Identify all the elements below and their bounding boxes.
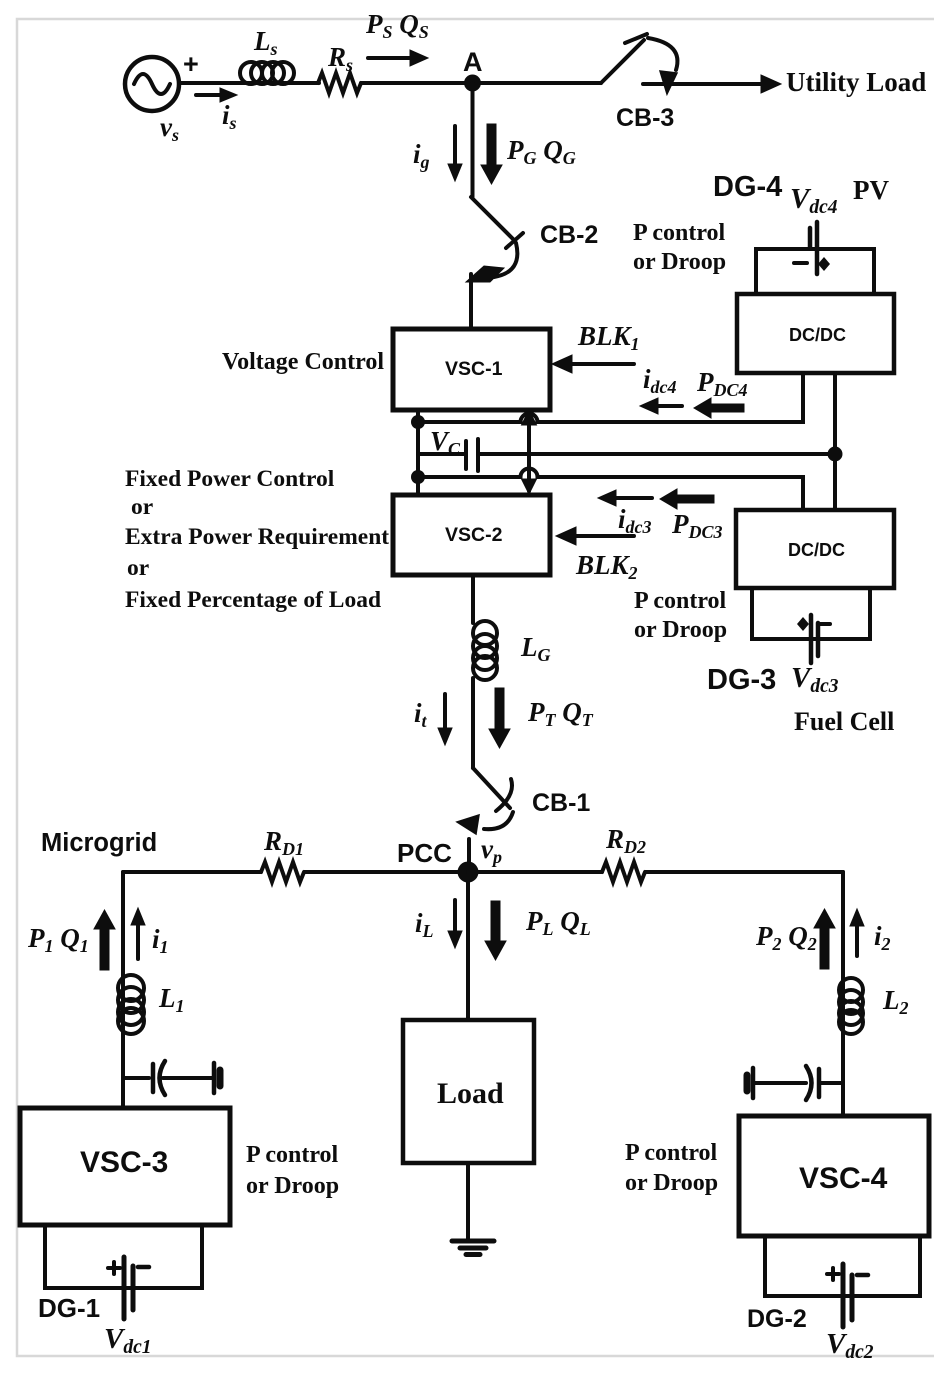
wire dc middle rail right xyxy=(479,452,835,456)
thick arrow PT QT xyxy=(489,688,510,748)
wire CB-1 to PCC xyxy=(467,839,471,872)
battery DG-3 dash xyxy=(819,622,830,626)
svg-text:Vdc2: Vdc2 xyxy=(826,1328,874,1363)
battery loop DG-4 xyxy=(756,249,874,294)
svg-text:CB-3: CB-3 xyxy=(616,104,674,132)
resistor Rs xyxy=(318,73,361,93)
arrow PDC4 thick xyxy=(694,398,744,418)
battery DG-2 minus xyxy=(857,1273,868,1278)
wire center vertical VSC-1 to VSC-2 xyxy=(522,410,537,494)
capacitor right plate xyxy=(817,1069,822,1097)
svg-text:Ls: Ls xyxy=(253,26,278,59)
battery DG-4 plus diamond xyxy=(818,257,830,271)
svg-text:DG-2: DG-2 xyxy=(747,1305,807,1333)
svg-text:PT QT: PT QT xyxy=(527,697,594,730)
svg-text:DC/DC: DC/DC xyxy=(788,540,845,560)
thick arrow PL QL xyxy=(485,901,506,960)
svg-text:Vdc4: Vdc4 xyxy=(790,183,838,218)
wire right branch down xyxy=(841,872,845,1116)
svg-text:RD1: RD1 xyxy=(263,826,304,859)
svg-text:RD2: RD2 xyxy=(605,824,646,857)
battery loop DG-2 xyxy=(765,1236,920,1296)
bus wire left of PCC xyxy=(123,870,261,874)
battery DG-4 plates xyxy=(810,222,817,274)
resistor RD1 xyxy=(261,862,304,882)
svg-text:ig: ig xyxy=(413,139,430,172)
bus wire RD1 to PCC xyxy=(305,870,468,874)
bus wire RD2 to right corner xyxy=(646,870,843,874)
node dot dc bus bottom xyxy=(411,470,425,484)
svg-text:DG-3: DG-3 xyxy=(707,664,776,696)
ground xyxy=(452,1241,494,1255)
svg-text:Load: Load xyxy=(437,1077,504,1110)
breaker CB-2 xyxy=(466,197,523,282)
wire A down to CB-2 xyxy=(471,83,475,197)
capacitor VC xyxy=(466,439,478,471)
wire dc rail bottom with hop xyxy=(418,469,803,510)
svg-text:LG: LG xyxy=(520,632,551,665)
breaker CB-1 xyxy=(457,768,513,834)
svg-text:PDC3: PDC3 xyxy=(671,509,723,542)
battery DG-3 plates xyxy=(811,615,818,663)
wire DC/DC upper right stub down to lower xyxy=(833,373,837,510)
arrow BLK1 into VSC-1 xyxy=(552,355,634,373)
arrow BLK2 into VSC-2 xyxy=(556,527,634,545)
wire VSC-2 to LG xyxy=(471,575,475,623)
svg-text:CB-2: CB-2 xyxy=(540,221,598,249)
capacitor left nub xyxy=(217,1070,224,1086)
svg-text:Microgrid: Microgrid xyxy=(41,829,157,857)
svg-text:VSC-1: VSC-1 xyxy=(445,358,503,380)
load box xyxy=(403,1020,534,1163)
svg-text:or Droop: or Droop xyxy=(634,617,727,643)
capacitor left plate xyxy=(151,1064,156,1092)
wire Rs to CB-3 xyxy=(361,81,601,85)
wire VSC-1 bottom left stub xyxy=(416,410,420,495)
svg-text:or: or xyxy=(131,494,153,520)
capacitor branch right wire2 xyxy=(820,1081,843,1085)
svg-text:P1 Q1: P1 Q1 xyxy=(27,923,89,956)
svg-text:BLK1: BLK1 xyxy=(577,321,640,354)
svg-text:i1: i1 xyxy=(152,924,169,957)
svg-text:it: it xyxy=(414,698,428,731)
converter VSC-2 xyxy=(393,495,550,575)
svg-text:PS QS: PS QS xyxy=(365,9,429,42)
svg-text:VSC-3: VSC-3 xyxy=(80,1146,168,1179)
arrow i1 xyxy=(131,908,145,959)
svg-text:Rs: Rs xyxy=(327,42,353,75)
svg-text:BLK2: BLK2 xyxy=(575,550,638,583)
svg-text:i2: i2 xyxy=(874,921,891,954)
capacitor right curved plate xyxy=(806,1066,812,1100)
arrow iL xyxy=(448,900,462,948)
breaker CB-3 xyxy=(601,34,677,94)
arrowhead utility load xyxy=(761,75,781,93)
ac source vs xyxy=(125,57,179,111)
svg-text:VSC-2: VSC-2 xyxy=(445,524,503,546)
arrow it xyxy=(438,694,452,745)
wire CB-2 to VSC-1 xyxy=(469,274,473,329)
wire CB-3 to Utility Load arrow xyxy=(643,82,762,86)
inductor Ls xyxy=(240,62,294,84)
thick arrow PG QG xyxy=(481,124,502,184)
arrow i2 xyxy=(850,909,864,956)
svg-text:VC: VC xyxy=(430,426,461,459)
converter DC/DC lower xyxy=(736,510,894,588)
converter VSC-1 xyxy=(393,329,550,410)
converter DC/DC upper xyxy=(737,294,894,373)
svg-text:Vdc1: Vdc1 xyxy=(104,1323,152,1358)
svg-text:P control: P control xyxy=(633,220,726,246)
battery DG-4 minus xyxy=(794,261,807,265)
arrow is xyxy=(196,88,237,102)
capacitor branch right nub xyxy=(744,1075,751,1091)
battery DG-1 plates xyxy=(124,1257,133,1319)
svg-text:Fixed Percentage of Load: Fixed Percentage of Load xyxy=(125,587,381,613)
node PCC dot xyxy=(458,862,479,883)
svg-text:Vdc3: Vdc3 xyxy=(791,662,839,697)
wire DC/DC upper left stub down xyxy=(801,373,805,422)
svg-text:Fuel Cell: Fuel Cell xyxy=(794,707,894,736)
svg-text:Extra Power Requirement: Extra Power Requirement xyxy=(125,524,389,550)
capacitor branch left wire xyxy=(125,1076,149,1080)
wire source to resistor xyxy=(179,81,319,85)
svg-text:or Droop: or Droop xyxy=(633,249,726,275)
svg-text:+: + xyxy=(183,49,199,79)
svg-text:P control: P control xyxy=(634,588,727,614)
capacitor branch left wire2 xyxy=(163,1076,212,1080)
inductor LG xyxy=(473,621,497,680)
svg-text:P control: P control xyxy=(246,1142,339,1168)
battery DG-1 minus xyxy=(138,1265,149,1270)
arrow PDC3 thick xyxy=(660,489,714,509)
svg-text:L2: L2 xyxy=(882,985,909,1018)
battery DG-2 plates xyxy=(843,1264,852,1327)
svg-text:vp: vp xyxy=(481,834,502,867)
svg-text:iL: iL xyxy=(415,908,434,941)
svg-text:is: is xyxy=(222,100,237,133)
resistor RD2 xyxy=(602,862,645,882)
bus wire PCC to RD2 xyxy=(468,870,602,874)
battery DG-3 plus diamond xyxy=(797,617,809,631)
node dot dc bus top xyxy=(411,415,425,429)
arrow idc3 thin xyxy=(598,490,652,506)
svg-text:idc3: idc3 xyxy=(618,504,652,537)
svg-text:DG-4: DG-4 xyxy=(713,171,782,203)
wire rail to DC/DC lower left stub xyxy=(801,477,805,510)
battery DG-1 plus xyxy=(108,1262,120,1274)
capacitor branch right wire xyxy=(755,1081,806,1085)
battery DG-2 plus xyxy=(827,1268,839,1280)
svg-text:CB-1: CB-1 xyxy=(532,789,590,817)
wire dc middle rail left xyxy=(418,452,464,456)
svg-text:or Droop: or Droop xyxy=(246,1173,339,1199)
capacitor left bar xyxy=(212,1063,217,1093)
wire PCC down to Load xyxy=(466,882,470,1020)
svg-text:P2 Q2: P2 Q2 xyxy=(755,921,817,954)
wire Load to ground xyxy=(466,1163,470,1240)
inductor L2 xyxy=(839,978,863,1034)
svg-text:Fixed Power Control: Fixed Power Control xyxy=(125,466,335,492)
thick arrow P2 Q2 xyxy=(814,909,835,969)
node A dot xyxy=(464,75,481,92)
svg-text:L1: L1 xyxy=(158,983,185,1016)
svg-text:PL QL: PL QL xyxy=(525,906,591,939)
inductor L1 xyxy=(118,975,144,1034)
converter VSC-4 xyxy=(739,1116,929,1236)
svg-text:PV: PV xyxy=(853,175,889,205)
wire left branch down xyxy=(121,872,125,1108)
battery loop DG-1 xyxy=(45,1225,202,1288)
svg-text:vs: vs xyxy=(160,112,179,145)
svg-text:PCC: PCC xyxy=(397,838,452,868)
svg-text:idc4: idc4 xyxy=(643,364,677,397)
svg-text:VSC-4: VSC-4 xyxy=(799,1162,888,1195)
svg-text:Utility Load: Utility Load xyxy=(786,67,926,97)
capacitor left curved plate xyxy=(160,1061,166,1095)
wire LG to CB-1 xyxy=(471,678,475,768)
svg-text:or Droop: or Droop xyxy=(625,1170,718,1196)
thick arrow P1 Q1 xyxy=(94,910,115,970)
node dot middle rail right xyxy=(828,447,843,462)
svg-text:or: or xyxy=(127,555,149,581)
svg-text:PG QG: PG QG xyxy=(506,135,576,168)
svg-text:DC/DC: DC/DC xyxy=(789,325,846,345)
battery loop DG-3 xyxy=(752,588,870,639)
arrow ig xyxy=(448,126,462,181)
arrow idc4 thin xyxy=(640,398,682,414)
svg-text:A: A xyxy=(463,47,483,77)
converter VSC-3 xyxy=(20,1108,230,1225)
capacitor right bar xyxy=(751,1068,756,1098)
arrow PS QS xyxy=(368,50,428,66)
svg-text:P control: P control xyxy=(625,1140,718,1166)
svg-text:DG-1: DG-1 xyxy=(38,1293,100,1323)
wire dc rail top with hop xyxy=(418,373,803,422)
svg-text:Voltage Control: Voltage Control xyxy=(222,349,384,375)
